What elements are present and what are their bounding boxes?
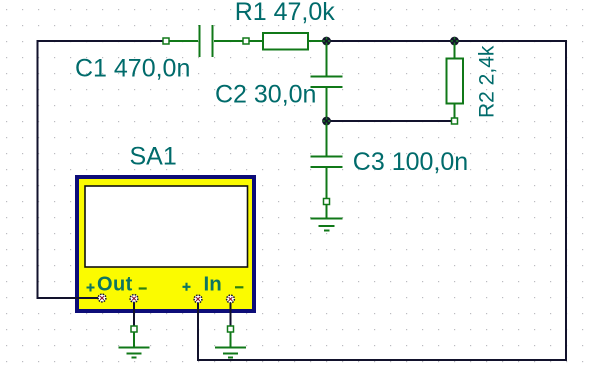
node C junction (C2/C3/middle net) [322,117,331,126]
svg-text:C2 30,0n: C2 30,0n [215,81,316,109]
svg-text:C1 470,0n: C1 470,0n [75,55,190,83]
label In - [235,286,243,288]
svg-text:Out: Out [97,273,133,295]
label Out + [87,284,95,292]
label Out - [139,287,147,289]
capacitor C1 [163,25,249,57]
resistor R1 [249,33,324,50]
wire: In- terminal down to ground pin [230,302,232,326]
terminal In+ [194,295,202,303]
capacitor C3 [311,124,343,199]
svg-text:SA1: SA1 [130,143,177,171]
svg-text:C3 100,0n: C3 100,0n [353,148,468,176]
ground below C3 [311,199,343,231]
ground below Out- [119,326,150,358]
terminal In- [227,295,235,303]
capacitor C2 [311,44,343,118]
instrument SA1 box [77,177,254,311]
svg-text:R2 2,4k: R2 2,4k [476,45,499,118]
wire: left loop from top corner down to Out+ terminal [38,41,164,298]
label In + [183,283,191,291]
wire: middle net from junction C to R2 bottom pin [329,120,451,122]
svg-text:In: In [204,273,222,296]
wire: Out- terminal down to ground pin [133,302,135,326]
node B junction (top net / R2) [450,37,459,46]
wire: top net between junction A and junction B [329,40,452,42]
ground below In- [215,326,246,358]
instrument screen [85,186,248,267]
wire: from junction B right, down right edge, along bottom, up to In+ terminal [198,41,566,360]
node A junction (R1/C2/top net) [322,37,331,46]
terminal Out+ [98,294,106,302]
resistor R2 [447,44,464,124]
svg-text:R1 47,0k: R1 47,0k [235,0,336,26]
terminal Out- [130,295,138,303]
